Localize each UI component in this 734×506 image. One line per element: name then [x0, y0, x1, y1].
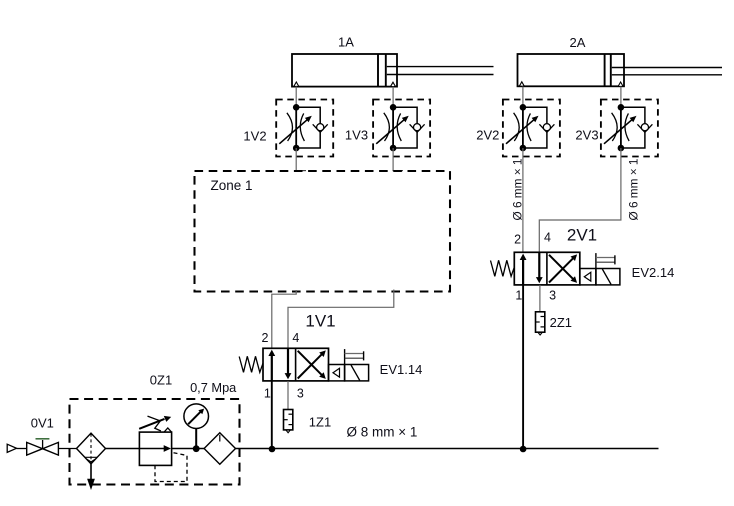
svg-text:4: 4 — [544, 231, 551, 245]
svg-text:1Z1: 1Z1 — [309, 415, 331, 430]
valve 2V1 (4/2 solenoid valve) — [491, 252, 620, 285]
wire Zone 1 bottom to 1V1 port 4 — [288, 290, 394, 349]
svg-text:2: 2 — [514, 233, 521, 247]
wire 2A right port to 2V3 — [620, 87, 622, 108]
wire 2V2 to 2V1 port 2 — [522, 148, 524, 253]
svg-text:1: 1 — [264, 387, 271, 401]
shut-off valve 0V1 — [27, 439, 59, 455]
svg-text:2V3: 2V3 — [575, 128, 598, 143]
service unit 0Z1 enclosure — [70, 399, 240, 485]
drain arrow — [87, 464, 95, 490]
flow control valve 1V3 — [373, 100, 430, 157]
main supply line — [236, 448, 659, 450]
lubricator — [204, 433, 235, 464]
svg-text:1V2: 1V2 — [243, 129, 266, 144]
wire 1V1 port 1 to main line — [271, 381, 273, 449]
svg-text:4: 4 — [292, 331, 299, 345]
air source — [7, 444, 16, 452]
wire 1A left port to 1V2 — [295, 87, 297, 108]
wire 1V3 to Zone 1 top — [393, 148, 404, 171]
svg-text:EV2.14: EV2.14 — [632, 265, 675, 280]
svg-text:0,7 Mpa: 0,7 Mpa — [190, 380, 237, 395]
svg-text:2Z1: 2Z1 — [550, 315, 572, 330]
filter with water separator — [77, 433, 106, 464]
silencer 2Z1 — [535, 312, 545, 335]
svg-text:3: 3 — [549, 289, 556, 303]
wire 1V1 port 3 to silencer 1Z1 — [287, 381, 289, 410]
svg-text:EV1.14: EV1.14 — [380, 362, 423, 377]
wire 0V1 to service unit — [58, 448, 76, 450]
svg-text:Ø 6 mm × 1: Ø 6 mm × 1 — [510, 159, 524, 221]
wire 2V3 to 2V1 port 4 — [539, 148, 621, 253]
svg-text:1V1: 1V1 — [305, 312, 335, 331]
pressure regulator — [139, 416, 171, 466]
svg-text:2V2: 2V2 — [476, 128, 499, 143]
svg-text:1: 1 — [515, 289, 522, 303]
wire 2A left port to 2V2 — [522, 87, 524, 108]
svg-text:Zone 1: Zone 1 — [211, 178, 253, 193]
port 1A right — [391, 82, 396, 86]
port 2A right — [618, 82, 623, 86]
flow control valve 2V2 — [503, 100, 560, 157]
port 2A left — [519, 82, 524, 86]
wire 1V2 to Zone 1 top — [296, 148, 306, 171]
node main line / 1V1 — [269, 446, 276, 453]
svg-text:1V3: 1V3 — [345, 128, 368, 143]
wire 2V1 port 3 to silencer 2Z1 — [539, 285, 541, 312]
wire source to 0V1 — [17, 448, 27, 450]
svg-text:2: 2 — [262, 331, 269, 345]
svg-text:0Z1: 0Z1 — [150, 373, 172, 388]
svg-text:Ø 8 mm × 1: Ø 8 mm × 1 — [347, 425, 418, 440]
cylinder 1A — [292, 54, 494, 87]
node gauge junction — [193, 445, 200, 452]
wire Zone 1 bottom to 1V1 port 2 — [272, 290, 296, 348]
svg-text:1A: 1A — [338, 35, 354, 50]
flow control valve 1V2 — [276, 100, 333, 157]
flow control valve 2V3 — [601, 100, 658, 157]
svg-text:2A: 2A — [570, 35, 586, 50]
wire regulator to lubricator — [172, 448, 205, 450]
Zone 1 dashed enclosure — [195, 171, 451, 292]
port 1A left — [294, 82, 299, 86]
svg-text:3: 3 — [297, 387, 304, 401]
svg-text:0V1: 0V1 — [31, 416, 54, 431]
silencer 1Z1 — [283, 410, 293, 433]
pressure gauge — [184, 404, 209, 449]
wire filter to regulator — [106, 448, 140, 450]
wire 1A right port to 1V3 — [392, 87, 394, 108]
valve 1V1 (4/2 solenoid valve) — [239, 348, 368, 381]
svg-text:Ø 6 mm × 1: Ø 6 mm × 1 — [626, 159, 640, 221]
svg-text:2V1: 2V1 — [567, 226, 597, 245]
node main line / 2V1 — [520, 446, 527, 453]
wire 2V1 port 1 to main line — [522, 285, 524, 449]
cylinder 2A — [518, 54, 723, 86]
regulator pilot dashed line — [155, 453, 187, 482]
